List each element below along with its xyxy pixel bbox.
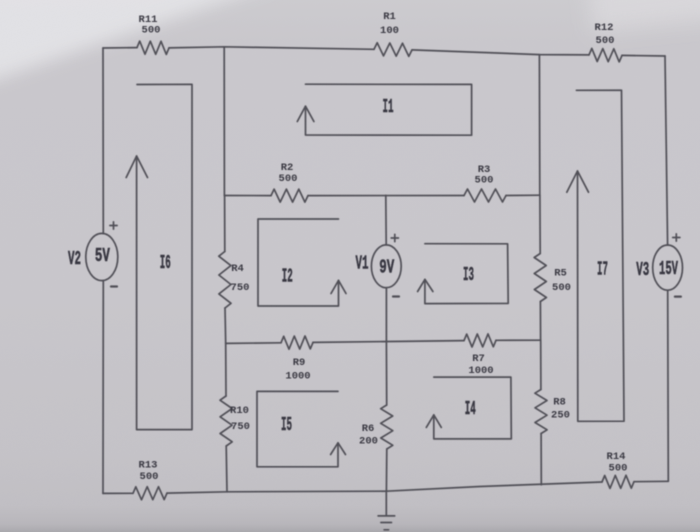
wire row R9-R7 [226, 340, 541, 343]
minus V3 [675, 296, 681, 298]
wire V1 column [385, 195, 388, 341]
mesh loop I5 [257, 391, 338, 466]
wire R5 leads [539, 195, 542, 340]
wire R10 leads [226, 343, 227, 491]
resistor R12 [589, 48, 622, 62]
resistor R1 [374, 43, 412, 57]
minus V1 [393, 295, 399, 297]
wire column x224 top [223, 47, 225, 196]
resistor R11 [137, 41, 169, 54]
plus V2 [110, 222, 117, 229]
mesh loop I3 [425, 244, 508, 304]
resistor R14 [602, 475, 634, 488]
resistor R6 [381, 405, 393, 449]
resistor R3 [464, 189, 506, 202]
resistor R10 [220, 396, 232, 446]
wire right column [665, 56, 668, 481]
voltage source V3 [653, 245, 683, 290]
plus V3 [673, 234, 680, 241]
mesh loop I7 [576, 90, 624, 421]
resistor R13 [133, 487, 167, 500]
wire R6 leads [385, 342, 387, 492]
resistor R4 [219, 252, 231, 309]
resistor R8 [535, 390, 547, 434]
mesh loop I1 [306, 84, 472, 135]
wire column x540 top [538, 55, 540, 196]
voltage source V1 [371, 245, 401, 288]
wire R8 leads [540, 340, 543, 485]
resistor R5 [534, 254, 546, 302]
mesh loop I6 [137, 84, 192, 429]
voltage source V2 [86, 233, 118, 280]
wire row R2-R3 [224, 194, 539, 196]
mesh loop I4 [434, 377, 512, 439]
wire R4 leads [225, 196, 226, 344]
resistor R2 [271, 189, 308, 202]
mesh loop I2 [258, 219, 339, 306]
plus V1 [391, 234, 398, 241]
resistor R9 [281, 336, 313, 349]
minus V2 [111, 285, 117, 287]
resistor R7 [464, 334, 496, 347]
wire top horizontal [103, 47, 665, 56]
wire left column [102, 48, 104, 493]
ground [378, 491, 395, 530]
wire bottom horizontal [103, 481, 668, 493]
